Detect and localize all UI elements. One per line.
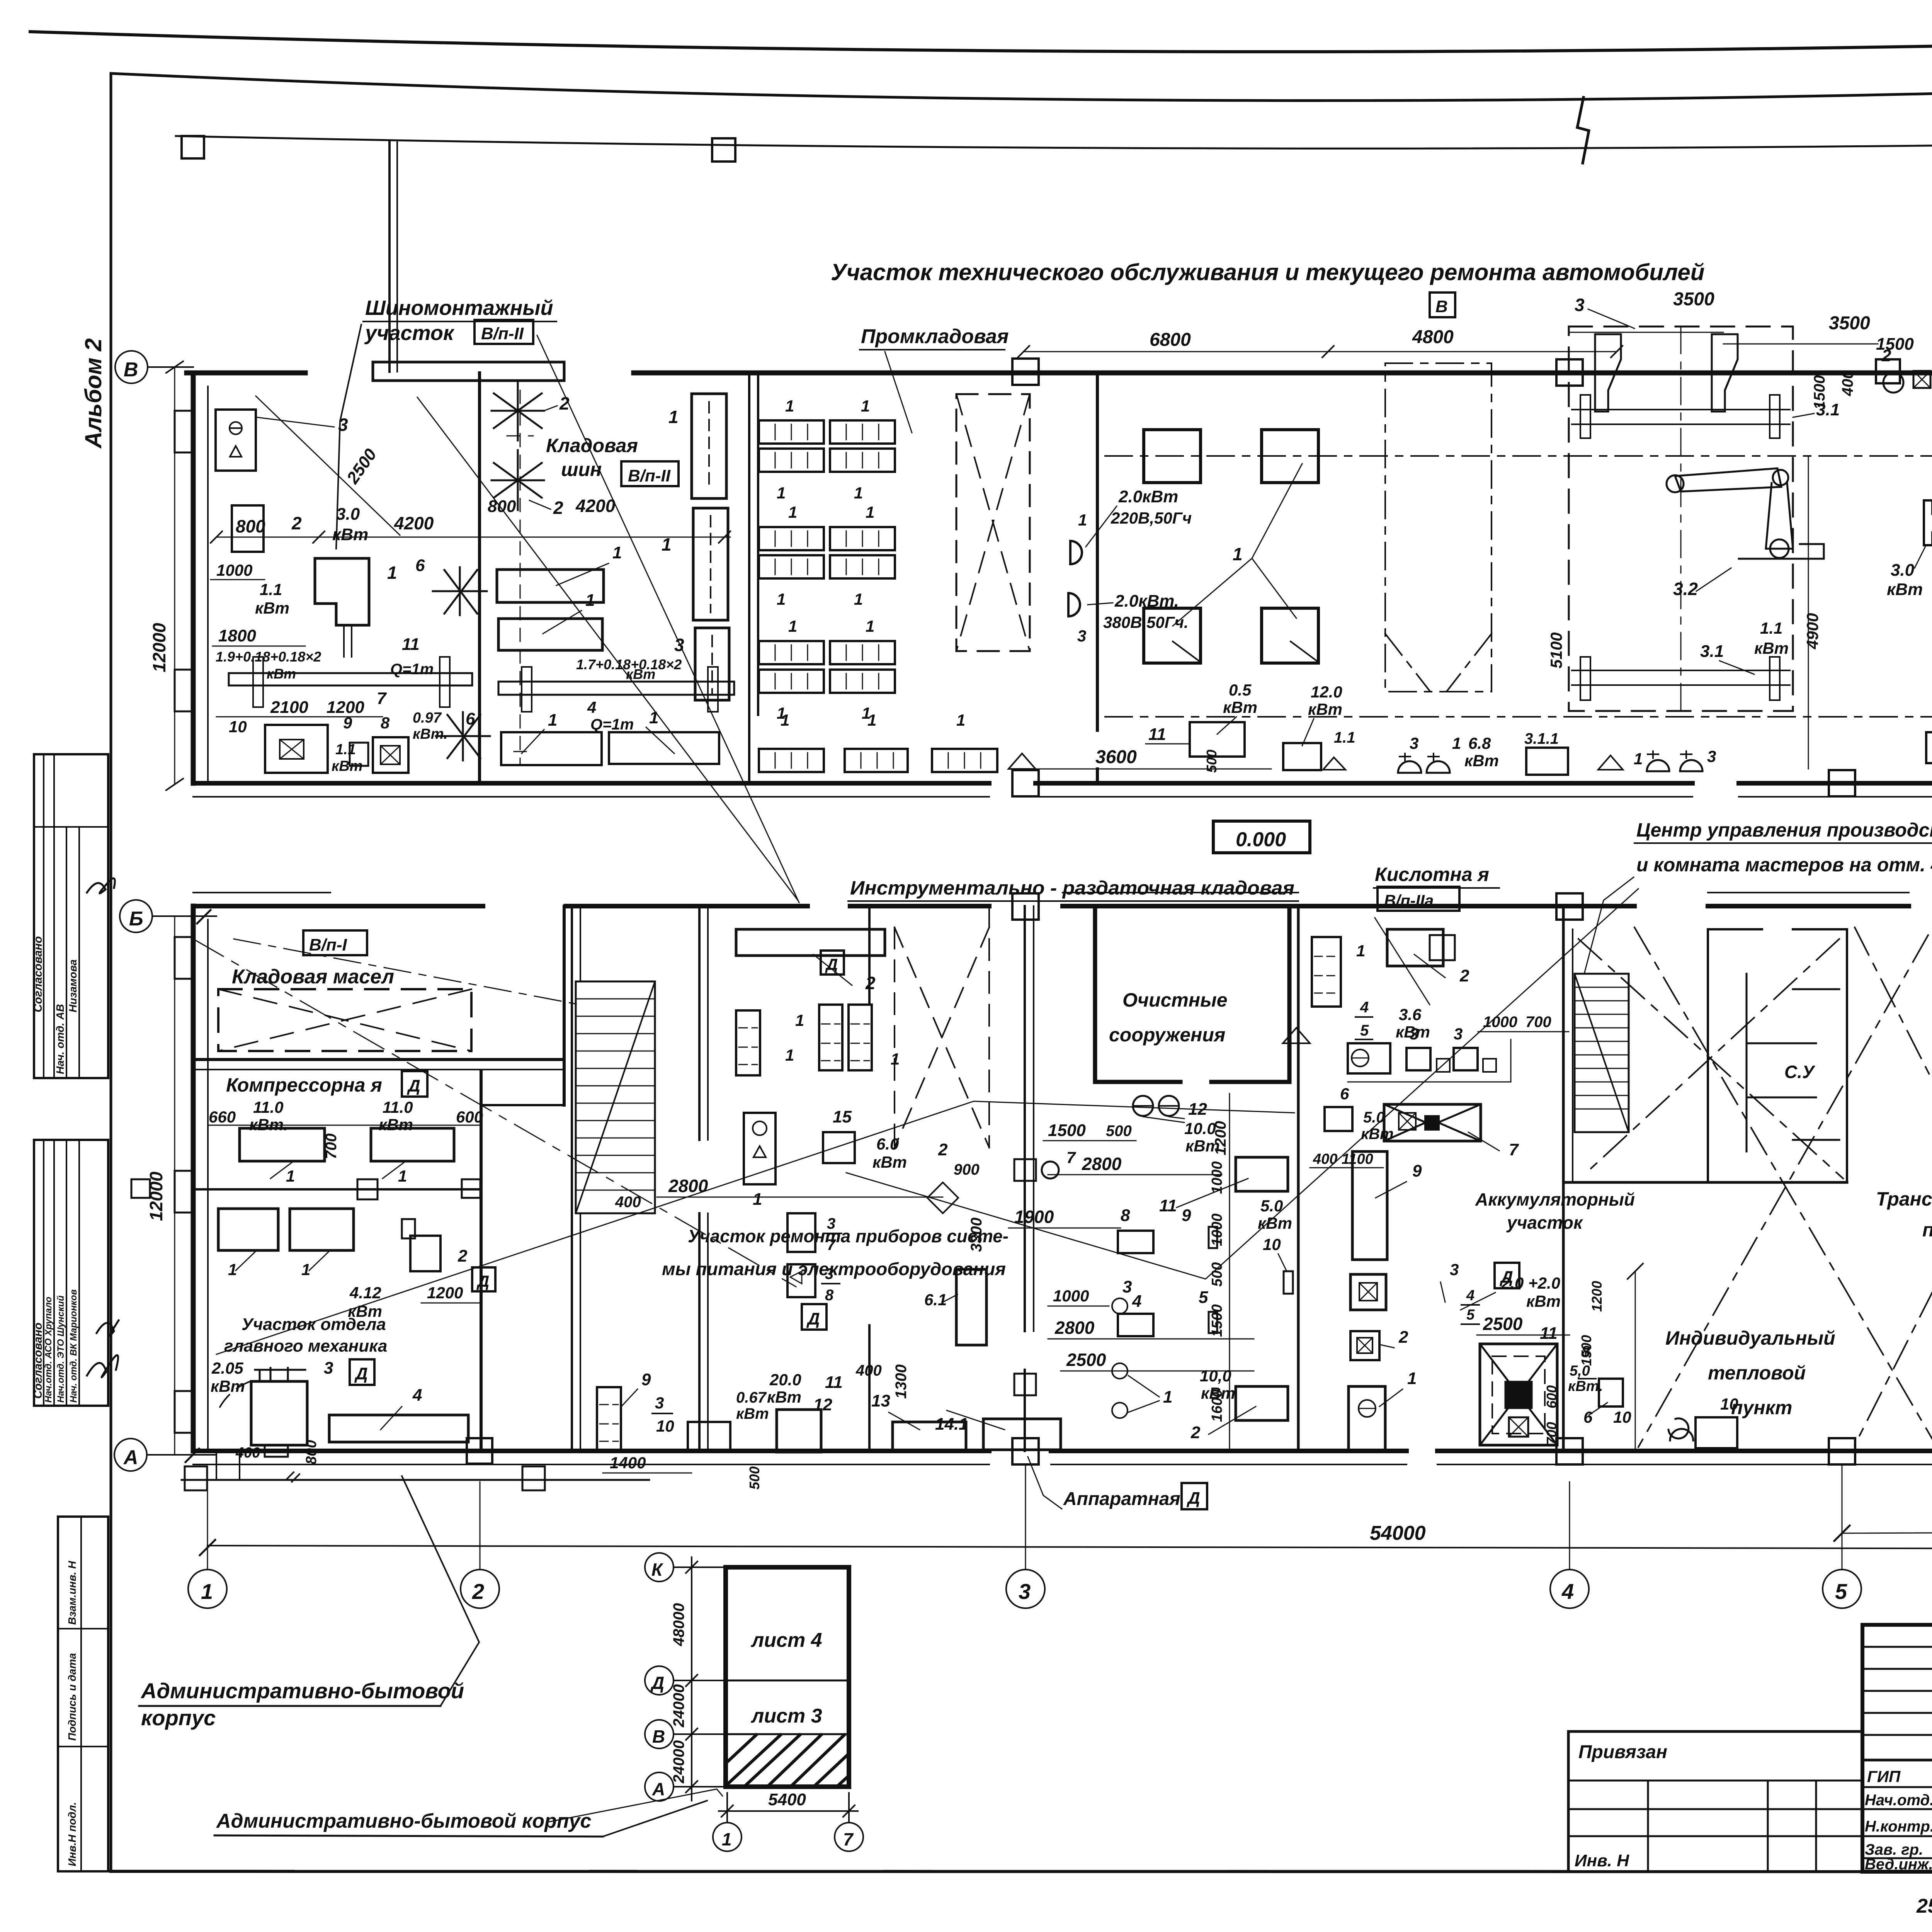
svg-text:8: 8	[381, 714, 390, 732]
svg-text:С.У: С.У	[1784, 1062, 1816, 1082]
svg-text:2: 2	[1459, 966, 1469, 985]
svg-text:4: 4	[587, 698, 596, 716]
device 2	[410, 1236, 440, 1271]
svg-text:1: 1	[286, 1167, 295, 1185]
svg-text:и комната мастеров на отм. 4.: и комната мастеров на отм. 4.200	[1636, 854, 1932, 876]
svg-text:кВт: кВт	[1754, 639, 1789, 657]
svg-text:1: 1	[1163, 1388, 1172, 1406]
svg-text:1200: 1200	[427, 1284, 463, 1302]
svg-text:кВт: кВт	[1464, 752, 1499, 770]
svg-text:5100: 5100	[1547, 633, 1565, 668]
svg-text:3: 3	[1707, 747, 1716, 765]
dim 800 / 4200	[216, 537, 730, 538]
svg-text:3.1.1: 3.1.1	[1524, 730, 1559, 747]
svg-text:1200: 1200	[1589, 1281, 1605, 1312]
svg-text:5: 5	[1360, 1022, 1369, 1039]
machine with arc	[251, 1381, 307, 1445]
axis circle 4	[1550, 1570, 1589, 1608]
svg-text:6: 6	[466, 709, 475, 728]
svg-text:2500: 2500	[1066, 1350, 1106, 1370]
svg-text:1: 1	[668, 407, 679, 427]
svg-text:Участок отдела: Участок отдела	[241, 1315, 386, 1334]
Room: Кладовая масел	[303, 930, 367, 955]
key axis circle А	[645, 1772, 673, 1801]
svg-text:кВт: кВт	[1526, 1292, 1561, 1310]
svg-text:1500: 1500	[1209, 1304, 1225, 1337]
svg-text:Трансформаторная: Трансформаторная	[1876, 1188, 1932, 1210]
svg-text:мы питания и электрооборудован: мы питания и электрооборудования	[662, 1259, 1006, 1279]
svg-text:12.0: 12.0	[1311, 683, 1342, 701]
svg-text:участок: участок	[1506, 1213, 1583, 1233]
Участок ремонта приборов room	[736, 929, 885, 956]
outer top border line	[30, 24, 1932, 52]
svg-text:Нач.отд. ЭТО Шунский: Нач.отд. ЭТО Шунский	[56, 1295, 66, 1403]
svg-text:Административно-бытовой корпус: Административно-бытовой корпус	[216, 1810, 591, 1832]
ЦУП stairs	[1575, 974, 1629, 1132]
svg-text:кВт: кВт	[332, 525, 368, 544]
svg-text:1: 1	[785, 397, 794, 415]
svg-text:В: В	[1435, 297, 1448, 316]
svg-text:3: 3	[1410, 1025, 1418, 1043]
svg-text:400: 400	[235, 1445, 260, 1461]
svg-text:6: 6	[1583, 1408, 1593, 1426]
top wall of top building	[187, 371, 1932, 376]
svg-text:5: 5	[1835, 1579, 1847, 1604]
svg-text:3.2: 3.2	[1673, 579, 1698, 599]
svg-text:Д: Д	[825, 955, 838, 973]
tire rack tall 3	[695, 628, 729, 700]
diagonal dim 2500	[256, 396, 400, 535]
svg-text:1: 1	[866, 617, 874, 635]
svg-text:Д: Д	[1186, 1489, 1200, 1508]
svg-text:корпус: корпус	[141, 1706, 216, 1730]
ventilation box	[1384, 1104, 1481, 1141]
svg-text:2100: 2100	[270, 698, 308, 717]
svg-text:3.1: 3.1	[1700, 642, 1724, 661]
annex column square mid	[712, 138, 735, 162]
break mark on inner top line	[1577, 97, 1589, 163]
column square axis5 area top	[1876, 359, 1900, 383]
svg-text:1: 1	[854, 484, 863, 502]
wall right of oil store	[563, 906, 566, 1105]
lower content left-center room	[597, 1387, 621, 1452]
svg-text:2: 2	[553, 498, 563, 518]
svg-text:4: 4	[1132, 1292, 1141, 1311]
shelf rects mid room	[497, 570, 604, 602]
device 1 with circle	[744, 1113, 776, 1184]
svg-text:1.1: 1.1	[1334, 729, 1355, 746]
tire rack tall 1b	[693, 508, 728, 620]
Очистные сооружения room	[1095, 906, 1289, 1082]
ТО hall lane dash-dot lines	[1105, 455, 1932, 457]
svg-text:1500: 1500	[1048, 1121, 1086, 1140]
svg-text:Промкладовая: Промкладовая	[861, 325, 1009, 348]
svg-text:2800: 2800	[668, 1176, 708, 1196]
svg-text:В/п-IIа: В/п-IIа	[1384, 891, 1434, 910]
svg-text:лист 3: лист 3	[750, 1705, 822, 1727]
axis leader lines down	[207, 1482, 208, 1570]
stair block walls	[571, 906, 573, 1451]
svg-text:4: 4	[412, 1386, 422, 1405]
svg-text:9: 9	[1182, 1206, 1191, 1225]
dashed line between asterisks	[507, 390, 533, 764]
svg-text:тепловой: тепловой	[1708, 1362, 1806, 1384]
svg-text:7: 7	[827, 1236, 836, 1253]
svg-text:11: 11	[825, 1373, 843, 1392]
svg-text:Аккумуляторный: Аккумуляторный	[1475, 1189, 1635, 1209]
svg-text:3500: 3500	[1829, 313, 1870, 333]
svg-text:Административно-бытовой: Административно-бытовой	[140, 1679, 464, 1703]
svg-text:3: 3	[1575, 295, 1585, 315]
svg-text:4200: 4200	[575, 496, 616, 516]
key plan bottom dim	[726, 1793, 728, 1822]
svg-text:11: 11	[1159, 1196, 1177, 1215]
svg-text:8: 8	[1121, 1206, 1130, 1225]
svg-text:Инструментально - раздаточная: Инструментально - раздаточная кладовая	[850, 877, 1294, 899]
svg-text:5: 5	[1466, 1307, 1475, 1323]
svg-text:1000: 1000	[1053, 1287, 1089, 1305]
svg-text:24000: 24000	[670, 1684, 687, 1728]
svg-text:В: В	[124, 359, 138, 381]
svg-text:5400: 5400	[768, 1790, 806, 1809]
axis А circle	[114, 1439, 147, 1471]
svg-text:3: 3	[338, 415, 348, 435]
key axis circle K	[645, 1553, 673, 1582]
svg-text:4: 4	[1360, 999, 1369, 1016]
svg-text:11: 11	[1540, 1324, 1558, 1343]
upper cut line of annex	[176, 133, 1932, 148]
svg-text:1000: 1000	[1483, 1014, 1517, 1031]
svg-text:14.1: 14.1	[935, 1415, 968, 1434]
tire machine 3	[216, 410, 256, 471]
monorail кладовая шин	[498, 682, 734, 695]
svg-text:7: 7	[1066, 1148, 1076, 1167]
key plan axis circle 7	[835, 1823, 863, 1851]
svg-text:Нач. отд. ВК Марионков: Нач. отд. ВК Марионков	[68, 1289, 79, 1403]
welder circles	[1070, 541, 1082, 564]
svg-text:1: 1	[867, 711, 876, 729]
svg-text:8: 8	[825, 1287, 834, 1304]
axis circle 1	[188, 1570, 227, 1608]
svg-text:1100: 1100	[1342, 1151, 1373, 1167]
svg-text:1500: 1500	[1578, 1335, 1594, 1366]
bottom shelf row	[759, 749, 824, 772]
pit crossbeam bottom	[1572, 670, 1790, 685]
svg-text:9: 9	[343, 714, 352, 732]
oil store dashed X rect	[218, 989, 471, 1051]
top wall of bottom building	[193, 904, 1932, 908]
bottom wall of bottom building	[193, 1449, 1932, 1453]
svg-text:Нач. отд. АВ: Нач. отд. АВ	[54, 1004, 66, 1074]
column square axis3 top wall	[1012, 359, 1039, 385]
svg-text:10: 10	[1613, 1408, 1631, 1426]
svg-text:пункт: пункт	[1731, 1397, 1792, 1418]
svg-text:3: 3	[1454, 1025, 1463, 1043]
svg-text:1000: 1000	[1209, 1213, 1225, 1246]
svg-text:Д: Д	[476, 1272, 489, 1290]
svg-text:500: 500	[1209, 1262, 1225, 1287]
svg-text:1300: 1300	[893, 1364, 910, 1399]
svg-text:2800: 2800	[1054, 1318, 1095, 1338]
svg-text:3: 3	[827, 1215, 835, 1232]
monorail 11	[229, 673, 472, 685]
svg-text:380В,50Гч.: 380В,50Гч.	[1103, 613, 1189, 631]
svg-text:4: 4	[1561, 1579, 1574, 1604]
svg-text:3300: 3300	[968, 1218, 985, 1252]
svg-text:Участок технического обслужи: Участок технического обслуживания и теку…	[831, 259, 1704, 285]
storage racks group	[759, 420, 895, 693]
svg-text:Участок ремонта приборов систе: Участок ремонта приборов систе-	[688, 1226, 1009, 1246]
dashed X rect middle room	[895, 906, 989, 1148]
0.000 elevation box	[1213, 821, 1310, 853]
svg-text:2500: 2500	[343, 445, 380, 488]
svg-text:6: 6	[1340, 1085, 1349, 1103]
svg-text:500: 500	[747, 1466, 762, 1490]
annex column square left	[182, 136, 204, 158]
wall x2242	[868, 906, 871, 1451]
items 8 9	[1118, 1231, 1153, 1253]
svg-text:400: 400	[1313, 1151, 1337, 1167]
svg-text:10: 10	[656, 1417, 674, 1435]
svg-text:А: А	[652, 1779, 665, 1799]
bench 4	[329, 1415, 468, 1442]
svg-text:кВт: кВт	[1223, 698, 1257, 716]
svg-text:2.0кВт: 2.0кВт	[1118, 487, 1178, 506]
pit dashed rect	[1569, 327, 1793, 711]
svg-text:В/п-I: В/п-I	[309, 935, 347, 954]
bottom right small items	[1926, 732, 1932, 763]
pyramid device 11	[1480, 1344, 1557, 1445]
svg-text:2.0кВт.: 2.0кВт.	[1114, 592, 1179, 611]
svg-text:220В,50Гч: 220В,50Гч	[1111, 509, 1192, 527]
svg-text:главного механика: главного механика	[224, 1337, 387, 1355]
svg-text:Согласовано: Согласовано	[32, 936, 44, 1012]
svg-text:кВт: кВт	[736, 1405, 769, 1422]
title block outer	[1862, 1625, 1932, 1872]
svg-text:1: 1	[866, 503, 874, 521]
svg-text:1: 1	[201, 1579, 213, 1604]
interior wall x1950	[749, 373, 758, 783]
asterisk star 6 (upper)	[433, 567, 487, 615]
svg-text:1: 1	[398, 1167, 407, 1185]
svg-text:Альбом 2: Альбом 2	[80, 338, 106, 449]
svg-text:Кислотна я: Кислотна я	[1375, 864, 1489, 885]
interior wall x2840	[1096, 373, 1099, 783]
Кладовая шин room	[492, 381, 544, 510]
racks and 6.1 cluster	[787, 1213, 815, 1252]
axis circle 3	[1006, 1570, 1045, 1608]
pit top flags	[1595, 334, 1621, 412]
device 1 bottom battery	[1349, 1386, 1385, 1450]
svg-text:13: 13	[871, 1391, 890, 1410]
svg-text:А: А	[123, 1446, 138, 1469]
svg-text:Вед.инж.: Вед.инж.	[1865, 1856, 1932, 1873]
ЦУП inner walls	[1707, 929, 1709, 1182]
svg-text:2: 2	[1881, 346, 1891, 365]
svg-text:Д: Д	[650, 1673, 664, 1693]
pit crossbeam top	[1572, 410, 1790, 424]
svg-text:кВт: кВт	[1887, 580, 1923, 599]
Д box top left of room	[821, 951, 844, 975]
svg-text:1: 1	[777, 590, 786, 608]
svg-text:1: 1	[1407, 1369, 1417, 1388]
svg-text:1: 1	[662, 534, 672, 554]
svg-text:3: 3	[1410, 734, 1418, 752]
svg-text:кВт: кВт	[1308, 700, 1342, 718]
svg-text:11: 11	[402, 635, 420, 654]
svg-text:1: 1	[788, 617, 797, 635]
svg-text:0.67: 0.67	[736, 1389, 767, 1406]
svg-text:15: 15	[833, 1107, 852, 1126]
annex wall stub	[388, 142, 391, 372]
svg-text:2: 2	[1190, 1423, 1201, 1442]
svg-text:Центр управления производством: Центр управления производством	[1636, 819, 1932, 841]
svg-text:3: 3	[655, 1394, 664, 1412]
svg-text:4900: 4900	[1803, 613, 1821, 650]
wheel lift device A	[1924, 487, 1932, 557]
column squares bottom walls	[467, 1438, 492, 1464]
svg-text:4.12: 4.12	[349, 1284, 381, 1302]
svg-text:600: 600	[456, 1108, 483, 1126]
interior wall x1241	[478, 373, 481, 783]
svg-text:Индивидуальный: Индивидуальный	[1665, 1327, 1835, 1349]
svg-text:2500: 2500	[1483, 1314, 1523, 1334]
svg-text:1.1: 1.1	[260, 580, 282, 599]
svg-text:Д: Д	[806, 1310, 820, 1328]
svg-text:1: 1	[1078, 511, 1087, 529]
svg-text:1200: 1200	[1212, 1121, 1229, 1155]
svg-text:1.9+0.18+0.18×2: 1.9+0.18+0.18×2	[216, 649, 321, 665]
svg-text:1: 1	[612, 543, 622, 562]
key axis circle Д	[645, 1666, 673, 1695]
svg-text:54000: 54000	[1370, 1522, 1426, 1544]
svg-text:подстанция 1: подстанция 1	[1922, 1219, 1932, 1241]
svg-text:6.1: 6.1	[924, 1291, 947, 1309]
svg-text:800: 800	[303, 1440, 320, 1464]
svg-text:10,0: 10,0	[1200, 1367, 1231, 1385]
svg-text:0.000: 0.000	[1236, 828, 1286, 851]
semicircle machines bottom	[1398, 761, 1421, 773]
svg-text:4800: 4800	[1412, 327, 1454, 347]
svg-text:6800: 6800	[1150, 330, 1191, 350]
svg-text:Кладовая масел: Кладовая масел	[232, 966, 394, 988]
svg-text:Д: Д	[406, 1077, 420, 1095]
device 15	[823, 1132, 855, 1163]
svg-text:20.0: 20.0	[769, 1371, 801, 1389]
svg-text:7: 7	[843, 1829, 854, 1849]
devices below очистные	[1133, 1096, 1153, 1116]
svg-text:7: 7	[1509, 1140, 1519, 1159]
acid room items	[1312, 937, 1341, 1007]
svg-text:3: 3	[1450, 1260, 1459, 1279]
bottom device 2	[1236, 1386, 1288, 1420]
svg-text:400: 400	[1839, 370, 1856, 396]
column square on bottom wall axis5	[1829, 770, 1855, 796]
svg-text:1: 1	[387, 563, 397, 583]
svg-text:5: 5	[1199, 1288, 1208, 1307]
svg-text:3600: 3600	[1095, 747, 1137, 767]
left 12000 dim bottom building	[174, 916, 175, 1455]
svg-text:1: 1	[956, 711, 965, 729]
svg-text:Инв. Н: Инв. Н	[1575, 1851, 1629, 1870]
stamp block A (Согласовано / Низамова)	[34, 754, 108, 1078]
key plan rectangle	[726, 1567, 849, 1787]
svg-text:1900: 1900	[1014, 1207, 1054, 1227]
svg-text:Взам.инв. Н: Взам.инв. Н	[66, 1561, 78, 1625]
wall x4050 ЦУП	[1562, 906, 1565, 1451]
svg-text:700: 700	[323, 1133, 340, 1159]
svg-text:3: 3	[1122, 1277, 1132, 1296]
svg-text:кВт.: кВт.	[413, 726, 448, 742]
svg-text:500: 500	[1204, 750, 1219, 773]
svg-text:1: 1	[795, 1011, 804, 1029]
axis В circle	[115, 351, 148, 383]
long leader lines	[417, 397, 798, 900]
18000 dim axes 5-7	[1842, 1530, 1932, 1533]
svg-text:10.0: 10.0	[1184, 1119, 1216, 1138]
svg-text:Инв.Н подл.: Инв.Н подл.	[66, 1802, 78, 1866]
svg-text:2: 2	[472, 1579, 484, 1604]
lower rects	[218, 1209, 278, 1250]
svg-text:В/п-II: В/п-II	[628, 466, 671, 485]
svg-text:2: 2	[938, 1140, 948, 1159]
svg-text:2800: 2800	[1082, 1154, 1122, 1174]
svg-text:1: 1	[649, 708, 658, 727]
svg-text:сооружения: сооружения	[1109, 1024, 1225, 1046]
svg-text:1: 1	[781, 711, 789, 729]
svg-text:кВт.: кВт.	[1568, 1378, 1603, 1395]
wall x3360	[1297, 906, 1300, 1451]
svg-text:Очистные: Очистные	[1122, 989, 1228, 1011]
svg-text:кВт: кВт	[1258, 1214, 1292, 1232]
svg-text:500: 500	[1106, 1122, 1132, 1139]
svg-text:1: 1	[861, 397, 870, 415]
svg-text:кВт: кВт	[255, 599, 289, 617]
svg-text:3.0: 3.0	[336, 505, 360, 524]
svg-text:Нач.отд.: Нач.отд.	[1865, 1792, 1932, 1809]
svg-text:6: 6	[415, 556, 425, 575]
machine 10	[265, 725, 328, 773]
dims 2100 1200	[216, 716, 383, 718]
svg-text:0.97: 0.97	[413, 710, 442, 726]
svg-text:К: К	[651, 1560, 663, 1580]
svg-text:кВт: кВт	[872, 1153, 907, 1171]
svg-text:5.0: 5.0	[1260, 1197, 1283, 1215]
key plan left dim chain	[673, 1566, 726, 1568]
svg-text:3500: 3500	[1673, 289, 1714, 310]
axis circle 5	[1823, 1570, 1861, 1608]
svg-text:11.0: 11.0	[253, 1098, 284, 1116]
svg-text:800: 800	[236, 516, 265, 536]
asterisk star 6 (lower)	[436, 712, 490, 760]
inner top border line	[111, 66, 1932, 100]
svg-text:2: 2	[291, 513, 302, 533]
svg-text:6.8: 6.8	[1468, 734, 1491, 752]
compressors	[240, 1128, 325, 1161]
svg-text:2.0 +2.0: 2.0 +2.0	[1501, 1274, 1560, 1292]
left wall pilaster 2	[175, 670, 193, 711]
top building left wall	[191, 373, 196, 783]
signatures block B	[87, 1355, 118, 1377]
svg-text:1.1: 1.1	[335, 742, 356, 758]
svg-text:1: 1	[722, 1829, 732, 1849]
svg-text:5.0: 5.0	[1363, 1109, 1385, 1126]
svg-text:0.5: 0.5	[1229, 681, 1252, 699]
attachment table (Привязан)	[1568, 1731, 1862, 1872]
machine 2	[232, 505, 264, 552]
wall right of компрессорная	[480, 1070, 483, 1451]
svg-text:48000: 48000	[670, 1603, 687, 1646]
